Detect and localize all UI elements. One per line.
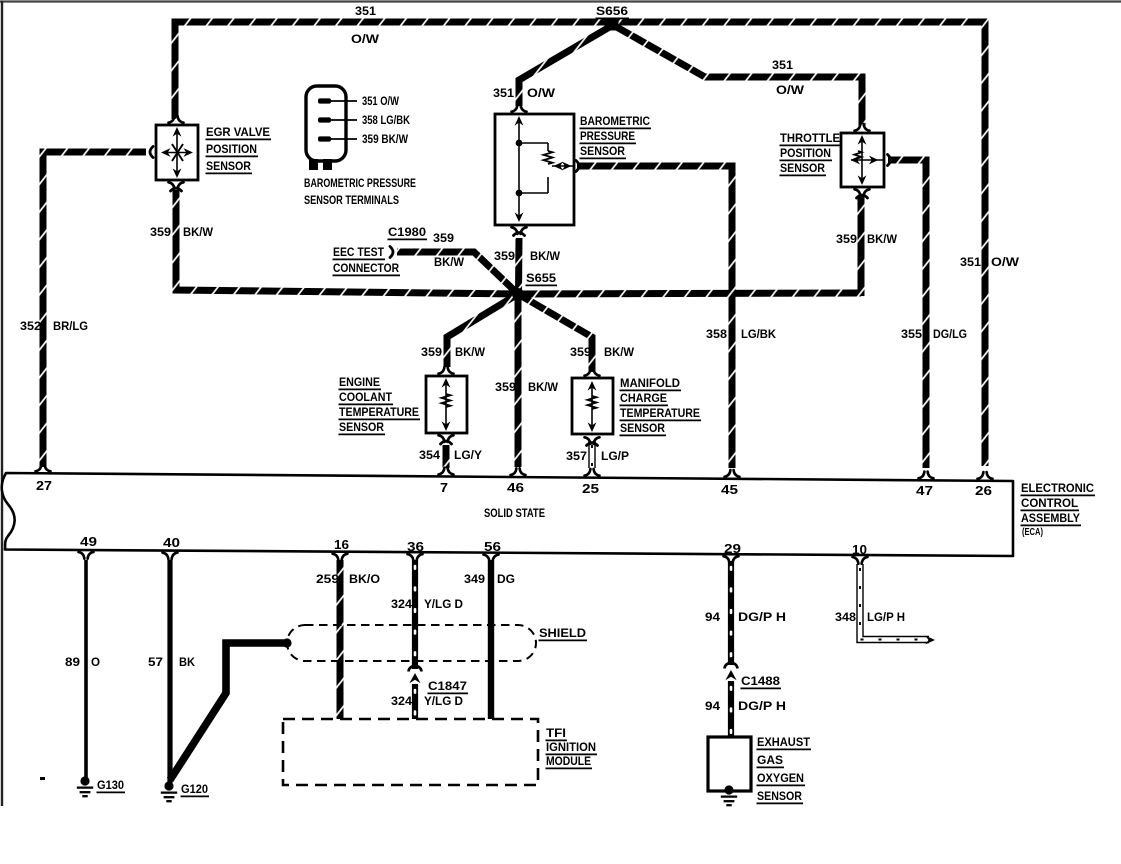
- wire 348 end arrowhead: [925, 636, 935, 645]
- page top border: [0, 0, 1121, 2]
- electronic control assembly ECA outline: [2, 473, 1013, 556]
- svg-text:BK/W: BK/W: [183, 225, 213, 239]
- ECT bottom connector: [439, 435, 454, 442]
- stray mark: [40, 777, 45, 780]
- svg-text:352: 352: [20, 319, 41, 333]
- TPS right connector: [888, 155, 891, 166]
- svg-text:BAROMETRIC: BAROMETRIC: [580, 114, 650, 128]
- svg-text:DG/P H: DG/P H: [738, 699, 786, 713]
- TPS bottom connector cup: [857, 195, 868, 198]
- svg-text:10: 10: [852, 542, 867, 557]
- svg-text:SENSOR: SENSOR: [780, 161, 825, 175]
- barometric pressure sensor terminals icon: [306, 86, 346, 161]
- pin 27 connector: [36, 465, 51, 472]
- wire 358 LG/BK baro wiper to pin 45: [577, 166, 732, 468]
- wire 352 BR/LG EGR left to pin 27: [43, 152, 146, 467]
- svg-text:358: 358: [706, 327, 727, 341]
- svg-text:COOLANT: COOLANT: [339, 390, 392, 404]
- svg-text:O/W: O/W: [351, 32, 380, 46]
- connector C1488: [725, 663, 738, 680]
- svg-text:26: 26: [975, 483, 992, 498]
- svg-text:259: 259: [316, 572, 339, 586]
- TPS bottom connector: [855, 189, 870, 196]
- svg-text:349: 349: [464, 572, 485, 586]
- wire 94 DG/P H C1488 to EGO sensor: [728, 681, 734, 737]
- svg-text:94: 94: [705, 699, 720, 713]
- svg-text:94: 94: [705, 610, 720, 624]
- svg-text:BAROMETRIC PRESSURE: BAROMETRIC PRESSURE: [304, 176, 416, 190]
- svg-text:324: 324: [391, 597, 412, 611]
- wire 359 BK/W main rail right: [518, 293, 861, 294]
- svg-text:BK/W: BK/W: [530, 249, 560, 263]
- svg-text:LG/P H: LG/P H: [867, 610, 905, 624]
- exhaust gas oxygen sensor box: [708, 737, 751, 791]
- svg-text:359: 359: [836, 232, 857, 246]
- svg-text:(ECA): (ECA): [1022, 526, 1043, 538]
- svg-text:359: 359: [150, 225, 171, 239]
- wire 359 BK/W S655 to ECT sensor: [447, 294, 518, 367]
- baro bottom connector cup: [514, 233, 525, 236]
- svg-text:SENSOR: SENSOR: [339, 420, 384, 434]
- splice S655: [512, 288, 524, 300]
- svg-text:36: 36: [407, 539, 424, 554]
- svg-text:Y/LG D: Y/LG D: [424, 694, 463, 708]
- ECT bottom connector cup: [441, 441, 452, 444]
- baro bottom connector: [512, 227, 527, 234]
- wire 259 BK/O pin 16 to TFI module: [337, 560, 344, 719]
- ECT top connector: [439, 367, 454, 374]
- EGR top connector: [169, 116, 184, 123]
- svg-text:LG/P: LG/P: [601, 449, 629, 463]
- wire 359 BK/W baro sensor to S655: [515, 238, 523, 294]
- svg-text:POSITION: POSITION: [206, 142, 257, 156]
- EGO sensor ground: [721, 785, 737, 805]
- svg-text:BK/W: BK/W: [528, 380, 558, 394]
- svg-text:358 LG/BK: 358 LG/BK: [362, 113, 410, 127]
- svg-text:TFI: TFI: [546, 726, 566, 740]
- svg-text:351: 351: [960, 255, 981, 269]
- pin 49 connector: [79, 552, 94, 559]
- wire 359 BK/W EGR leg + main rail left: [176, 190, 518, 294]
- ground G130: [77, 776, 93, 796]
- svg-text:Y/LG D: Y/LG D: [424, 597, 463, 611]
- svg-text:C1488: C1488: [741, 674, 780, 688]
- wire 355 DG/LG TPS wiper to pin 47: [888, 160, 926, 468]
- MCT top connector: [585, 369, 600, 376]
- pin 46 connector: [511, 468, 526, 475]
- engine coolant temperature sensor box: [426, 376, 467, 433]
- svg-text:C1980: C1980: [388, 225, 426, 239]
- baro right connector: [576, 161, 579, 172]
- svg-text:351 O/W: 351 O/W: [362, 94, 399, 108]
- pin 26 connector: [978, 472, 993, 479]
- pin 7 connector: [439, 468, 454, 475]
- svg-text:359: 359: [433, 231, 454, 245]
- svg-text:BK: BK: [179, 655, 195, 669]
- svg-text:ELECTRONIC: ELECTRONIC: [1021, 481, 1094, 495]
- svg-text:40: 40: [163, 535, 180, 550]
- svg-text:56: 56: [484, 539, 501, 554]
- MCT bottom connector cup: [587, 443, 598, 446]
- svg-text:CONTROL: CONTROL: [1021, 496, 1079, 510]
- svg-text:SOLID STATE: SOLID STATE: [484, 508, 545, 520]
- svg-text:25: 25: [582, 481, 599, 496]
- svg-text:GAS: GAS: [757, 753, 783, 767]
- svg-text:89: 89: [65, 655, 80, 669]
- svg-text:BR/LG: BR/LG: [53, 319, 88, 333]
- svg-text:O/W: O/W: [527, 86, 556, 100]
- svg-text:357: 357: [566, 449, 587, 463]
- wire 359 BK/W TPS bottom leg: [858, 196, 865, 296]
- pin 47 connector: [919, 472, 934, 479]
- svg-text:OXYGEN: OXYGEN: [757, 771, 804, 785]
- wire 94 DG/P H pin 29 to C1488: [728, 561, 734, 665]
- shield dashed outline: [287, 625, 536, 661]
- svg-text:DG/LG: DG/LG: [933, 327, 967, 341]
- wire 354 LG/Y ECT to pin 7: [443, 445, 450, 468]
- svg-text:359: 359: [421, 345, 442, 359]
- svg-text:SENSOR: SENSOR: [757, 789, 802, 803]
- wire 351 O/W top rail + EGR drop + pin26 drop: [175, 22, 985, 466]
- wire 359 BK/W S655 to pin 46: [515, 294, 522, 467]
- svg-text:BK/W: BK/W: [455, 345, 485, 359]
- svg-text:BK/W: BK/W: [434, 255, 464, 269]
- EGR bottom connector cup: [171, 188, 182, 191]
- wire 57 BK pin 40 to G120: [167, 560, 172, 783]
- svg-text:TEMPERATURE: TEMPERATURE: [339, 405, 419, 419]
- svg-text:49: 49: [80, 534, 97, 549]
- svg-text:O: O: [91, 655, 100, 669]
- pin 29 connector: [724, 556, 739, 563]
- EGR valve position sensor box: [156, 125, 198, 180]
- svg-text:BK/O: BK/O: [349, 572, 380, 586]
- svg-text:351: 351: [493, 86, 514, 100]
- splice S656: [608, 20, 619, 31]
- pin 40 connector: [163, 553, 178, 560]
- wire 349 DG pin 56 to TFI module: [488, 560, 494, 719]
- svg-text:359: 359: [494, 249, 515, 263]
- wire shield drain to G120: [170, 643, 286, 780]
- svg-text:O/W: O/W: [776, 83, 805, 97]
- wire 359 BK/W S655 to MCT sensor: [518, 294, 592, 372]
- svg-text:29: 29: [724, 541, 741, 556]
- svg-text:47: 47: [916, 483, 933, 498]
- svg-text:IGNITION: IGNITION: [546, 740, 596, 754]
- svg-text:324: 324: [391, 694, 412, 708]
- svg-text:351: 351: [772, 58, 793, 72]
- svg-text:359: 359: [495, 380, 516, 394]
- svg-text:LG/Y: LG/Y: [454, 448, 482, 462]
- MCT bottom connector: [585, 437, 600, 444]
- page left border: [1, 1, 3, 806]
- pin 36 connector: [408, 554, 423, 561]
- pin 16 connector: [333, 554, 348, 561]
- svg-text:ENGINE: ENGINE: [339, 375, 380, 389]
- wire 324 Y/LG D pin 36 to C1847: [412, 560, 418, 669]
- TFI ignition module dashed box: [283, 719, 538, 785]
- svg-text:SENSOR: SENSOR: [580, 144, 625, 158]
- ECT thermistor symbol: [445, 381, 447, 428]
- svg-text:BK/W: BK/W: [604, 345, 634, 359]
- manifold charge temperature sensor box: [572, 378, 613, 434]
- svg-text:EXHAUST: EXHAUST: [757, 735, 810, 749]
- TPS top connector: [855, 124, 870, 131]
- EGR sensor potentiometer symbol: [176, 130, 178, 175]
- svg-text:27: 27: [36, 478, 52, 493]
- EEC test connector symbol: [390, 247, 393, 258]
- ground G120: [161, 781, 177, 801]
- wire 89 O pin 49 to G130: [84, 560, 88, 778]
- svg-text:O/W: O/W: [991, 255, 1020, 269]
- svg-text:SENSOR: SENSOR: [620, 421, 665, 435]
- wire 324 Y/LG D C1847 to TFI module: [412, 684, 418, 719]
- svg-text:348: 348: [835, 610, 856, 624]
- pin 25 connector: [585, 469, 600, 476]
- svg-text:46: 46: [507, 480, 524, 495]
- wire 351 O/W S656 to barometric sensor: [519, 25, 613, 106]
- svg-text:CONNECTOR: CONNECTOR: [333, 261, 399, 275]
- svg-text:ASSEMBLY: ASSEMBLY: [1021, 511, 1080, 525]
- svg-text:TEMPERATURE: TEMPERATURE: [620, 406, 700, 420]
- connector C1847: [409, 666, 422, 683]
- wire 351 O/W S656 to throttle position sensor: [613, 25, 862, 126]
- EGR left connector: [150, 147, 153, 158]
- svg-text:16: 16: [334, 537, 349, 552]
- MCT thermistor symbol: [591, 384, 593, 429]
- wire 348 LG/P H pin 10: [860, 564, 929, 640]
- svg-text:BK/W: BK/W: [867, 232, 897, 246]
- svg-text:CHARGE: CHARGE: [620, 391, 667, 405]
- svg-text:EGR VALVE: EGR VALVE: [206, 125, 270, 139]
- svg-text:LG/BK: LG/BK: [741, 327, 776, 341]
- wire 359 BK/W EEC test connector to S655: [397, 252, 518, 294]
- svg-text:DG: DG: [497, 572, 515, 586]
- svg-text:DG/P H: DG/P H: [738, 610, 786, 624]
- svg-text:7: 7: [440, 480, 448, 495]
- svg-text:MODULE: MODULE: [546, 754, 591, 768]
- pin 45 connector: [725, 470, 740, 477]
- svg-text:359: 359: [570, 345, 591, 359]
- svg-text:354: 354: [419, 448, 440, 462]
- barometric sensor potentiometer symbol: [518, 119, 520, 219]
- svg-text:MANIFOLD: MANIFOLD: [620, 376, 680, 390]
- pin 10 connector: [853, 557, 868, 564]
- svg-text:C1847: C1847: [428, 679, 467, 693]
- TPS potentiometer symbol: [861, 138, 863, 182]
- svg-text:SHIELD: SHIELD: [539, 626, 586, 640]
- svg-text:PRESSURE: PRESSURE: [580, 129, 635, 143]
- svg-text:S656: S656: [596, 4, 628, 18]
- svg-text:POSITION: POSITION: [780, 146, 831, 160]
- svg-text:351: 351: [355, 4, 376, 18]
- svg-text:THROTTLE: THROTTLE: [780, 131, 840, 145]
- svg-text:57: 57: [148, 655, 163, 669]
- svg-text:45: 45: [721, 482, 738, 497]
- svg-text:EEC TEST: EEC TEST: [333, 245, 384, 259]
- svg-text:SENSOR: SENSOR: [206, 159, 251, 173]
- barometric pressure sensor box: [495, 114, 574, 225]
- svg-text:355: 355: [901, 327, 922, 341]
- svg-text:G120: G120: [181, 782, 208, 796]
- shield drain junction dot: [282, 638, 291, 647]
- EGR bottom connector: [169, 182, 184, 189]
- svg-text:SENSOR TERMINALS: SENSOR TERMINALS: [304, 193, 399, 207]
- pin 56 connector: [484, 555, 499, 562]
- throttle position sensor box: [841, 133, 884, 187]
- wire 357 LG/P MCT to pin 25: [588, 441, 595, 468]
- baro top connector: [512, 105, 527, 112]
- svg-text:S655: S655: [526, 271, 556, 285]
- svg-text:359 BK/W: 359 BK/W: [362, 132, 408, 146]
- svg-text:G130: G130: [97, 778, 124, 792]
